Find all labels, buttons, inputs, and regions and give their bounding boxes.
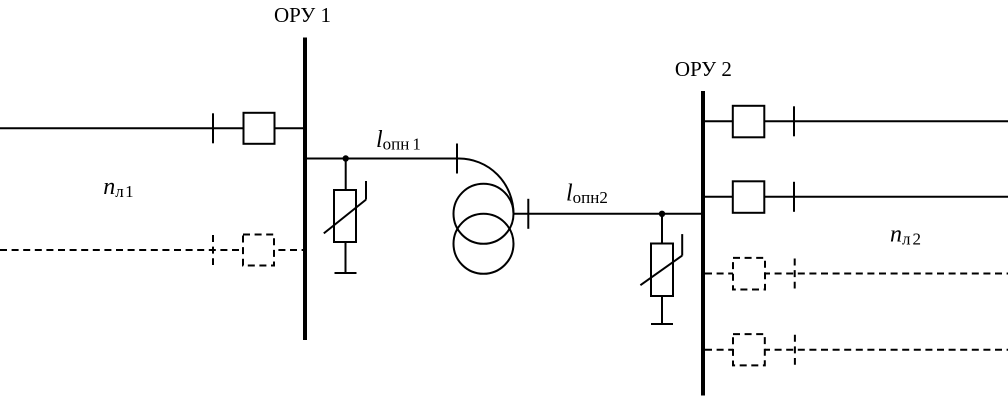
wire: ОПН1 to ground	[345, 242, 347, 273]
disconnector tick on right line 1	[793, 106, 795, 136]
circuit breaker on right dashed line 3	[733, 258, 765, 290]
wire: curved lead into transformer	[459, 159, 514, 214]
busbar ОРУ 1	[303, 38, 307, 341]
disconnector tick on right dashed line 4	[794, 335, 796, 365]
surge arrester ОПН2 diagonal tail	[681, 234, 683, 256]
surge arrester ОПН2 body	[651, 244, 673, 297]
wire: incoming overhead line 1 (left, solid)	[0, 127, 305, 129]
wire: ОПН1 tap lead	[345, 159, 347, 191]
svg-text:ОРУ 2: ОРУ 2	[675, 57, 732, 81]
wire l_опн2 (transformer to bus 2)	[514, 213, 704, 215]
ground (ОПН1)	[335, 272, 357, 274]
surge arrester ОПН1 diagonal tail	[365, 181, 367, 200]
svg-text:nл2: nл2	[890, 222, 921, 249]
wire: outgoing line 3 (right, dashed)	[705, 273, 1008, 275]
transformer T winding 1 (upper circle)	[454, 184, 514, 244]
busbar ОРУ 2	[701, 91, 705, 396]
circuit breaker on line 1	[244, 113, 275, 144]
ground (ОПН2)	[651, 323, 673, 325]
svg-text:lопн1: lопн1	[376, 127, 421, 154]
surge arrester ОПН1 body	[334, 190, 356, 242]
disconnector tick on right line 2	[793, 182, 795, 212]
disconnector tick on dashed line (left)	[212, 235, 214, 265]
disconnector tick on line 1	[212, 113, 214, 143]
wire: ОПН2 tap lead	[661, 214, 663, 244]
wire: outgoing line 1 (right, solid)	[703, 120, 1008, 122]
svg-text:lопн2: lопн2	[566, 180, 608, 207]
node: junction dot of ОПН2 tap	[659, 211, 665, 217]
circuit breaker on right line 2	[733, 181, 765, 213]
wire: outgoing line 2 (right, solid)	[703, 196, 1008, 198]
circuit breaker on dashed line (left)	[243, 235, 274, 266]
disconnector tick on right dashed line 3	[794, 259, 796, 289]
transformer T winding 2 (lower circle)	[454, 214, 514, 274]
tick on wire l_опн2	[527, 199, 529, 229]
wire: ОПН2 to ground	[661, 296, 663, 324]
svg-text:ОРУ 1: ОРУ 1	[274, 3, 331, 27]
svg-text:nл1: nл1	[103, 174, 133, 201]
surge arrester ОПН2 diagonal stroke	[640, 256, 682, 286]
wire: overhead line n_л1 (left, dashed)	[0, 249, 305, 251]
node: junction dot of ОПН1 tap	[343, 155, 349, 161]
tick on wire l_опн1	[456, 144, 458, 174]
wire: outgoing line 4 (right, dashed)	[705, 349, 1008, 351]
surge arrester ОПН1 diagonal stroke	[324, 200, 366, 234]
circuit breaker on right dashed line 4	[733, 334, 765, 365]
circuit breaker on right line 1	[733, 106, 765, 138]
wire l_опн1 (bus 1 to transformer)	[305, 158, 459, 160]
